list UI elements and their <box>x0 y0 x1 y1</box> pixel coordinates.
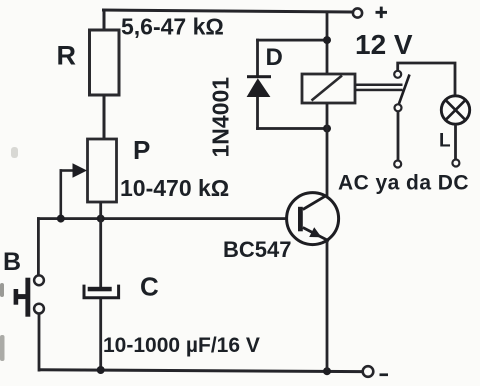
scan smudge top left <box>11 147 18 158</box>
label + <box>376 7 388 19</box>
wire base rail (horizontal) <box>37 217 286 220</box>
wire top rail to resistor <box>103 10 106 30</box>
svg-text:10-470 kΩ: 10-470 kΩ <box>120 175 229 201</box>
scan smudge left edge 2 <box>0 335 5 361</box>
transistor Q1 BC547 <box>287 193 339 245</box>
relay mechanical link (double line) <box>355 84 403 92</box>
capacitor C (electrolytic, plate in cup) <box>84 285 119 298</box>
terminal switch AC <box>394 161 401 168</box>
switch lever <box>399 75 410 106</box>
resistor R <box>90 30 120 95</box>
wire emitter to bottom rail <box>326 241 329 370</box>
wire diode cathode to bottom branch <box>256 97 259 130</box>
svg-text:1N4001: 1N4001 <box>208 77 234 158</box>
label - <box>380 373 389 376</box>
wire capacitor to bottom rail <box>99 299 102 371</box>
svg-text:R: R <box>57 41 77 71</box>
node emitter-rail junction <box>323 367 331 375</box>
node diode bottom junction <box>323 125 331 133</box>
pushbutton B <box>14 275 44 316</box>
terminal lamp AC <box>452 160 459 167</box>
diode D 1N4001 <box>247 75 271 97</box>
lamp L <box>441 96 469 124</box>
wire diode bottom branch <box>256 127 327 130</box>
wire lamp to AC terminal <box>454 124 457 160</box>
terminal + (positive supply) <box>353 8 362 17</box>
wire left rail upper <box>37 217 40 276</box>
svg-text:12 V: 12 V <box>355 29 413 60</box>
svg-text:C: C <box>140 272 159 302</box>
node diode top junction <box>323 36 331 44</box>
node capacitor-rail junction <box>97 366 105 374</box>
scan smudge left edge 1 <box>0 283 4 297</box>
wire diode top branch <box>256 39 327 42</box>
potentiometer P body <box>88 139 117 202</box>
wire pot bottom to capacitor <box>99 202 102 287</box>
terminal - (negative supply) <box>363 366 374 377</box>
wire switch top to lamp <box>398 63 455 95</box>
switch contact lower <box>395 104 402 111</box>
wire button to bottom rail <box>38 314 41 372</box>
wire diode anode side vertical <box>256 39 259 76</box>
switch contact upper <box>394 71 401 78</box>
wire relay to transistor collector <box>326 103 329 196</box>
wire switch lower to AC terminal <box>397 111 400 161</box>
wire main vertical: rail to relay <box>326 11 329 74</box>
svg-text:P: P <box>133 135 150 165</box>
svg-text:L: L <box>439 131 451 152</box>
relay coil K1 <box>302 74 355 103</box>
node pot-bottom junction <box>97 215 105 223</box>
wire top rail <box>102 10 352 12</box>
svg-text:10-1000 µF/16 V: 10-1000 µF/16 V <box>103 334 260 357</box>
wire bottom rail <box>38 370 362 372</box>
svg-text:B: B <box>3 248 21 276</box>
svg-text:D: D <box>266 44 283 71</box>
svg-text:BC547: BC547 <box>223 237 291 262</box>
svg-text:5,6-47 kΩ: 5,6-47 kΩ <box>121 14 224 40</box>
svg-text:AC ya da DC: AC ya da DC <box>338 172 469 195</box>
wire resistor to potentiometer <box>103 95 106 139</box>
potentiometer wiper arrow <box>60 163 88 219</box>
node wiper junction <box>57 215 65 223</box>
